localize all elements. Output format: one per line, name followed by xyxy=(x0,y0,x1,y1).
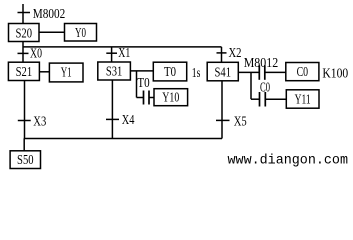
wire S21 to Y1 xyxy=(39,71,49,73)
svg-text:S50: S50 xyxy=(17,153,34,168)
transition tick X0 xyxy=(18,52,29,54)
wire S31 down xyxy=(111,80,113,139)
svg-text:S20: S20 xyxy=(16,26,33,41)
branch line xyxy=(23,46,222,48)
svg-text:S21: S21 xyxy=(16,65,33,80)
svg-text:X3: X3 xyxy=(33,114,46,129)
transition tick X2 xyxy=(217,52,227,54)
transition tick M8002 xyxy=(18,12,31,14)
svg-text:C0: C0 xyxy=(297,65,309,80)
wire S31 to T0 xyxy=(130,70,153,72)
contact T0 xyxy=(137,97,144,99)
contact M8012 xyxy=(258,65,260,80)
svg-text:M8012: M8012 xyxy=(244,56,279,71)
timer box T0 xyxy=(153,62,186,81)
wire branch to S41 xyxy=(221,47,223,62)
contact C0 xyxy=(251,98,260,100)
step S31 xyxy=(98,62,131,80)
transition tick X5 xyxy=(216,119,230,121)
svg-text:T0: T0 xyxy=(137,76,149,91)
svg-text:S31: S31 xyxy=(106,65,123,80)
step S50 xyxy=(10,151,40,169)
svg-text:K100: K100 xyxy=(322,67,348,82)
svg-text:X2: X2 xyxy=(229,46,242,61)
transition tick X3 xyxy=(18,120,31,122)
coil box Y1 xyxy=(49,63,83,82)
wire S20 to Y0 xyxy=(39,31,65,33)
wire S41 down xyxy=(221,81,223,139)
wire down to S50 xyxy=(23,139,25,151)
coil box Y0 xyxy=(65,24,97,42)
svg-text:1s: 1s xyxy=(192,66,201,81)
step S41 xyxy=(207,62,238,81)
svg-text:X1: X1 xyxy=(118,46,130,61)
wire S21 down xyxy=(24,81,26,139)
wire S20 down xyxy=(22,42,24,63)
svg-text:Y0: Y0 xyxy=(75,26,86,41)
step S20 xyxy=(9,24,40,42)
transition tick X1 xyxy=(106,52,117,54)
wire top entry xyxy=(22,4,24,24)
counter box C0 xyxy=(286,63,319,81)
svg-text:T0: T0 xyxy=(164,65,176,80)
wire S41 right xyxy=(238,71,259,73)
svg-text:Y10: Y10 xyxy=(162,91,179,106)
svg-text:Y1: Y1 xyxy=(61,66,72,81)
coil box Y10 xyxy=(154,89,188,106)
wire junction down xyxy=(250,72,252,99)
transition tick X4 xyxy=(106,118,119,120)
convergence line xyxy=(24,138,222,140)
svg-text:S41: S41 xyxy=(215,65,232,80)
svg-text:M8002: M8002 xyxy=(33,7,66,22)
wire junction down xyxy=(136,71,138,98)
step S21 xyxy=(8,62,39,80)
coil box Y11 xyxy=(286,90,319,108)
svg-text:www.diangon.com: www.diangon.com xyxy=(228,153,349,169)
wire branch to S31 xyxy=(111,47,113,62)
svg-text:X4: X4 xyxy=(122,113,135,128)
svg-text:Y11: Y11 xyxy=(295,92,311,107)
svg-text:X0: X0 xyxy=(30,46,42,61)
svg-text:X5: X5 xyxy=(234,114,247,129)
